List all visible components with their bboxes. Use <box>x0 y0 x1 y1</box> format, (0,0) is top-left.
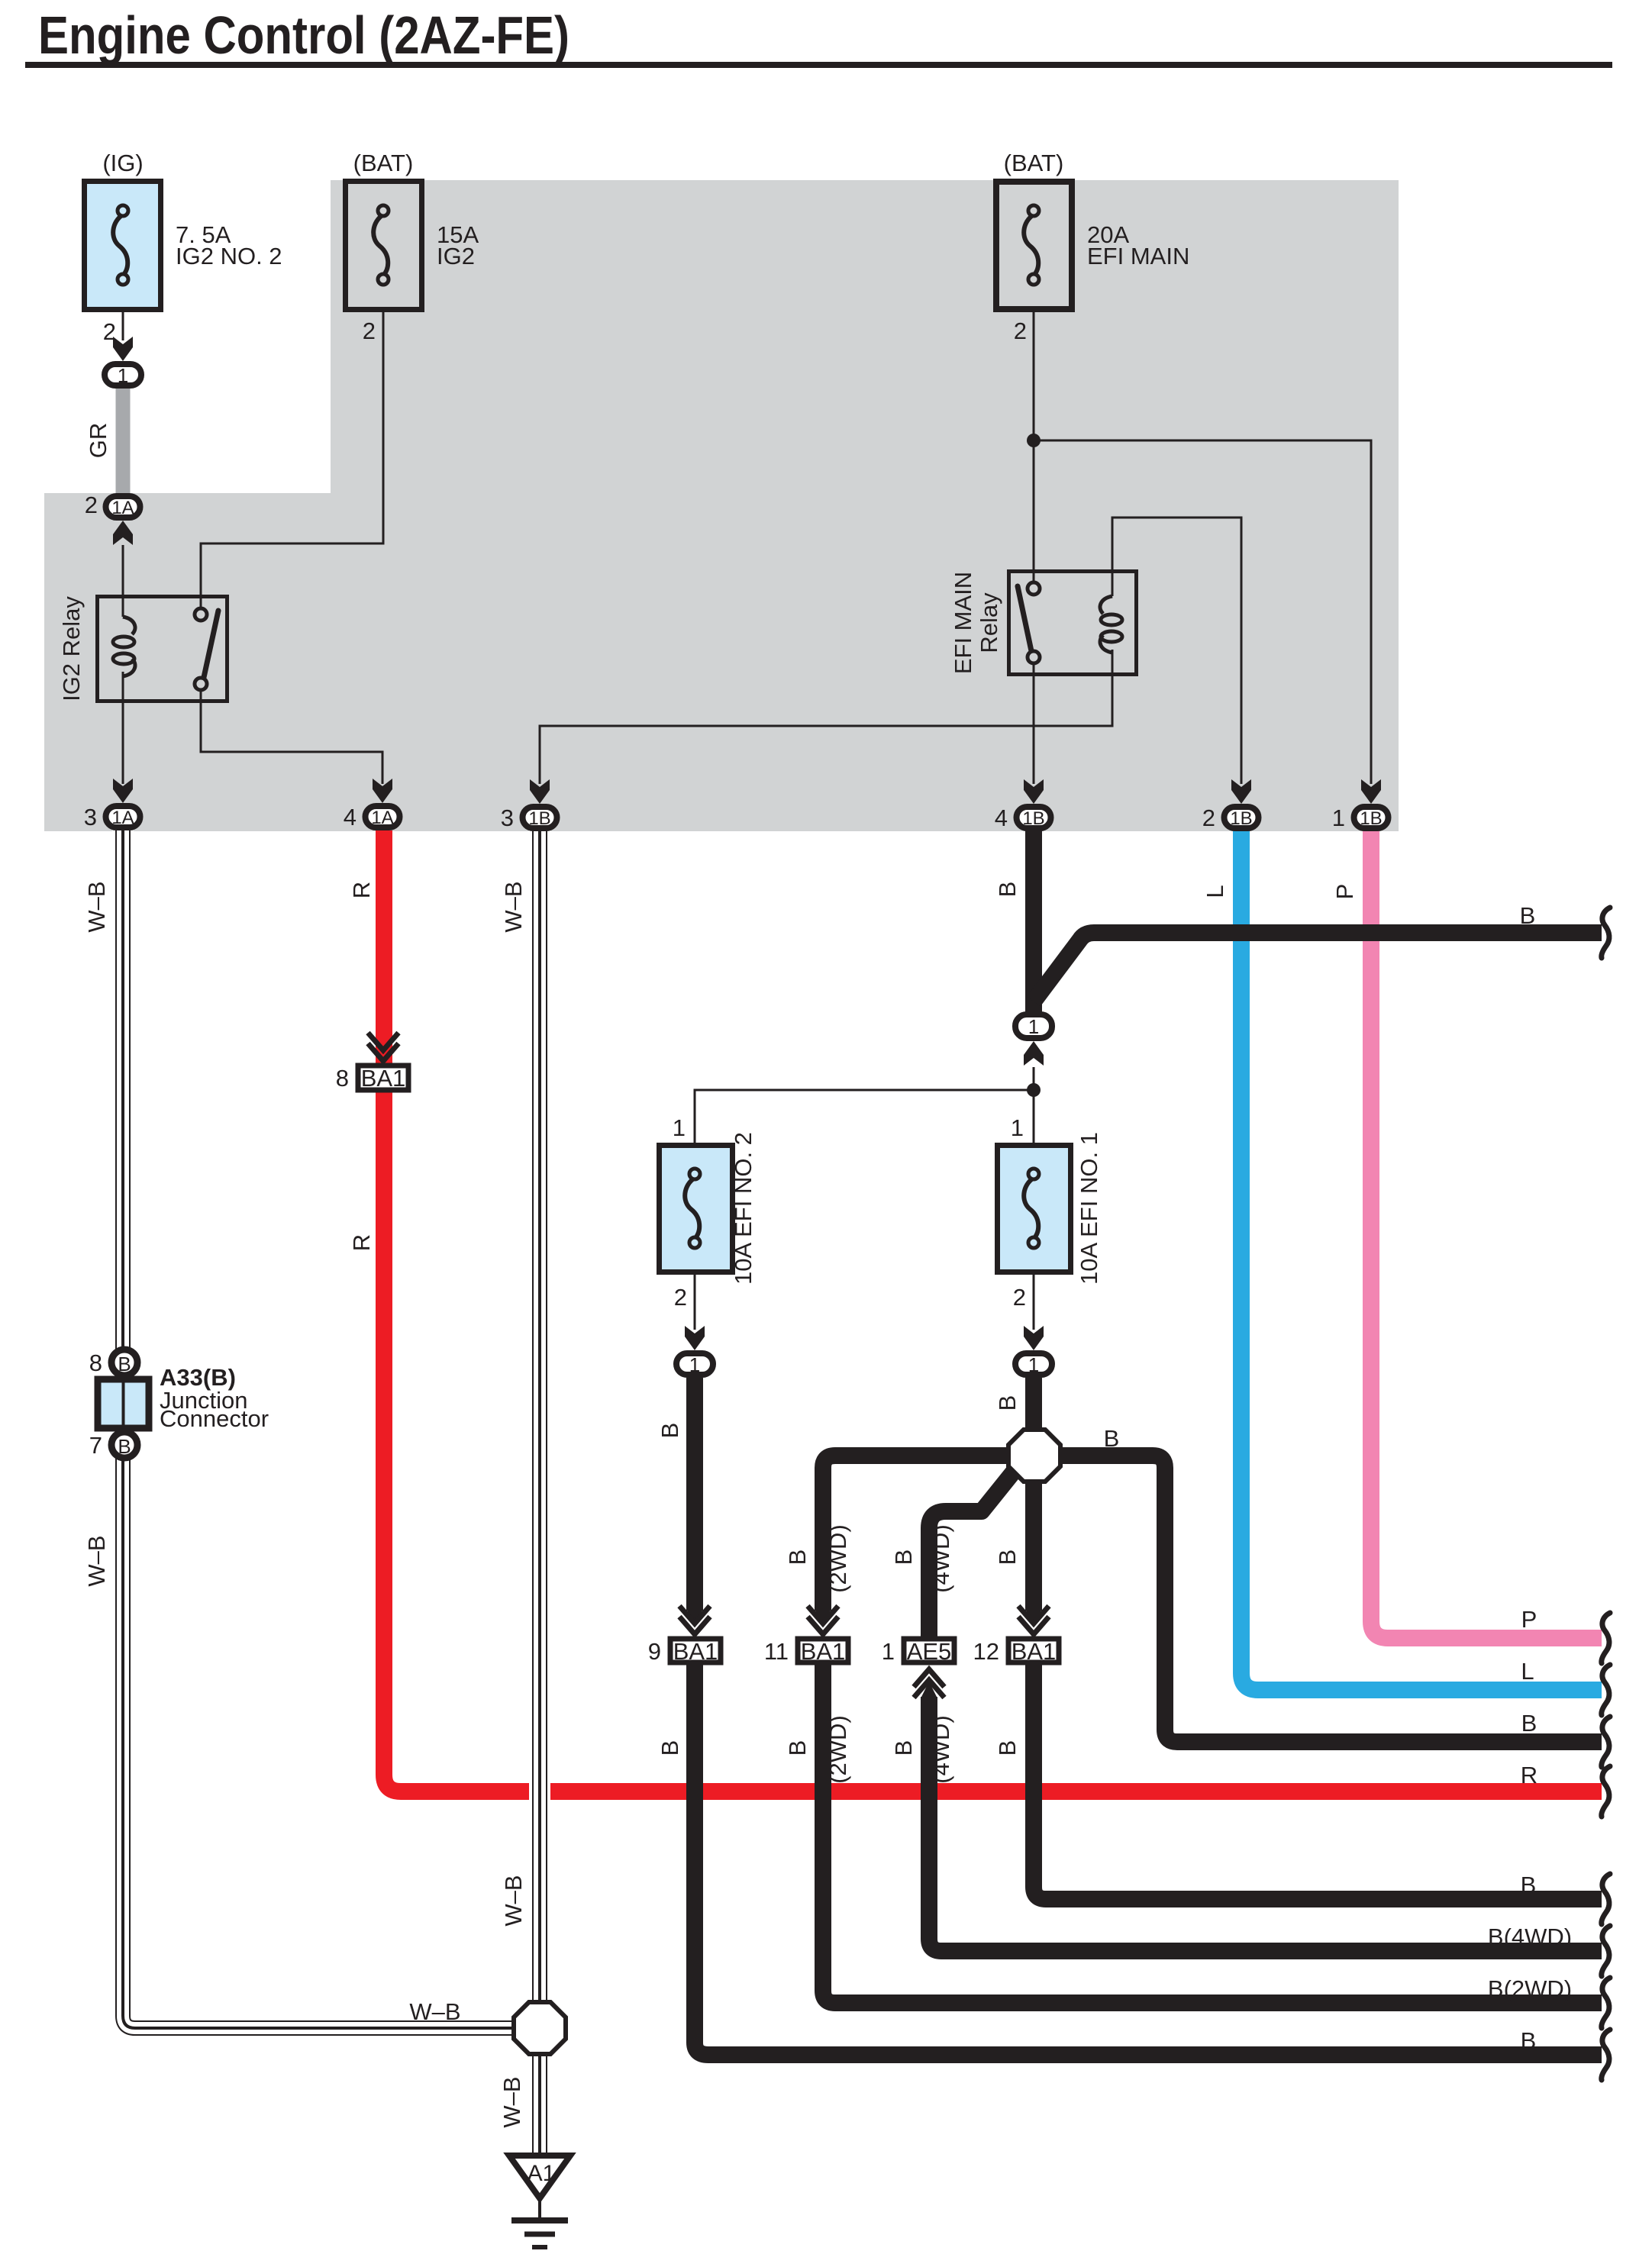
connector 2 (1A) <box>106 496 140 518</box>
pointed wire end at 11 BA1 <box>815 1609 831 1625</box>
wire B from 4(1B) down to node 1 <box>1025 830 1042 1012</box>
svg-text:BA1: BA1 <box>361 1065 406 1092</box>
svg-text:2: 2 <box>103 318 116 345</box>
svg-text:R: R <box>348 882 375 898</box>
arrow into 3(1B) <box>530 779 550 804</box>
wire P pink from 1(1B) to right exit <box>1371 830 1602 1638</box>
arrow into 4(1A) <box>373 779 392 803</box>
wire B(2WD) 11 BA1 to right exit <box>823 1663 1602 2003</box>
svg-text:1: 1 <box>1028 1015 1039 1038</box>
svg-text:B: B <box>784 1740 811 1756</box>
fuse 7.5A IG2 NO.2 (IG) <box>85 182 161 310</box>
double chevron arrow into 9 BA1 <box>679 1606 710 1634</box>
break curl B(2WD) exit <box>1602 1978 1610 2028</box>
svg-text:(2WD): (2WD) <box>824 1715 851 1784</box>
double chevron arrow into 11 BA1 <box>808 1606 838 1634</box>
wire EFI relay coil top to 2(1B) <box>1112 518 1241 784</box>
arrow into node 1 below IG fuse <box>113 337 133 361</box>
svg-text:2: 2 <box>1014 318 1027 344</box>
svg-text:10A EFI NO. 1: 10A EFI NO. 1 <box>1076 1132 1102 1285</box>
wire node to EFI NO.2 fuse <box>695 1090 1034 1143</box>
wire B octagon left branch to 11 BA1 <box>823 1456 1009 1611</box>
break curl R exit <box>1602 1766 1610 1817</box>
svg-text:B: B <box>1521 1872 1537 1898</box>
svg-text:B: B <box>657 1423 683 1439</box>
svg-text:R: R <box>1521 1762 1537 1788</box>
wire 2(1A) to IG2 relay coil <box>122 545 124 617</box>
svg-text:(BAT): (BAT) <box>1004 150 1064 176</box>
svg-text:IG2: IG2 <box>437 243 475 269</box>
wire W-B from A33(B) pin 7 to ground octagon <box>123 1457 514 2028</box>
svg-text:BA1: BA1 <box>1012 1638 1057 1665</box>
connector 1 (1B) <box>1354 807 1389 829</box>
connector node 1 below IG fuse <box>105 364 141 387</box>
wire B diagonal branch to top right exit <box>1034 933 1602 1001</box>
arrow into 4(1B) <box>1024 779 1044 804</box>
svg-text:4: 4 <box>995 805 1008 831</box>
splice 1 AE5 <box>904 1638 954 1665</box>
break curl B top exit <box>1602 908 1610 958</box>
svg-text:R: R <box>348 1234 375 1251</box>
svg-text:3: 3 <box>84 804 97 830</box>
svg-text:1A: 1A <box>111 498 134 518</box>
svg-text:P: P <box>1521 1606 1537 1633</box>
svg-text:EFI MAIN: EFI MAIN <box>1087 243 1189 269</box>
switch of EFI MAIN relay <box>1018 586 1031 651</box>
splice 11 BA1 <box>798 1638 848 1665</box>
svg-text:W–B: W–B <box>500 881 527 932</box>
svg-text:B: B <box>994 1395 1021 1411</box>
arrow into 1(1B) <box>1361 779 1381 804</box>
svg-text:W–B: W–B <box>409 1998 460 2025</box>
wire node 1 to EFI NO.1 fuse <box>1033 1067 1035 1143</box>
coil of EFI MAIN relay <box>1100 596 1112 614</box>
svg-text:IG2 NO. 2: IG2 NO. 2 <box>176 243 282 269</box>
wire EFI relay switch to 4(1B) <box>1033 663 1035 784</box>
svg-text:W–B: W–B <box>499 2076 525 2127</box>
svg-text:1B: 1B <box>1360 808 1382 829</box>
svg-text:B: B <box>118 1353 131 1375</box>
svg-text:BA1: BA1 <box>801 1638 846 1665</box>
junction octagon B <box>1008 1430 1060 1482</box>
wire B 12 BA1 to right exit <box>1034 1663 1602 1899</box>
splice 12 BA1 <box>1008 1638 1059 1665</box>
svg-text:1A: 1A <box>371 808 393 828</box>
svg-text:1: 1 <box>1011 1114 1024 1141</box>
connector node 1 below EFI NO.2 fuse <box>676 1353 713 1376</box>
svg-text:1B: 1B <box>528 808 550 829</box>
double chevron arrow into 12 BA1 <box>1018 1606 1049 1634</box>
junction dot at EFI fuse wire <box>1027 434 1041 447</box>
connector 2 (1B) <box>1224 807 1259 829</box>
switch of IG2 relay <box>203 611 218 681</box>
svg-text:1: 1 <box>882 1638 895 1665</box>
connector node 1 above octagon <box>1015 1014 1052 1038</box>
svg-text:8: 8 <box>336 1065 349 1092</box>
svg-text:W–B: W–B <box>83 1535 110 1586</box>
title underline <box>25 62 1612 68</box>
svg-text:P: P <box>1331 884 1358 900</box>
wire GR from fuse to 2(1A) <box>116 385 131 495</box>
wire junction to 1(1B) <box>1034 440 1371 784</box>
svg-text:B: B <box>994 1549 1021 1566</box>
svg-text:1: 1 <box>118 364 128 387</box>
svg-text:IG2 Relay: IG2 Relay <box>58 596 85 701</box>
arrow into node 1 below EFI NO.2 fuse <box>685 1326 705 1350</box>
splice 9 BA1 <box>670 1638 721 1665</box>
wire R red from 4(1A) to right exit <box>384 830 1602 1791</box>
svg-text:7: 7 <box>89 1432 102 1459</box>
svg-text:2: 2 <box>1202 805 1215 831</box>
svg-text:B(4WD): B(4WD) <box>1488 1924 1572 1950</box>
svg-text:B: B <box>118 1435 131 1458</box>
svg-text:(IG): (IG) <box>102 150 143 176</box>
svg-text:B: B <box>657 1740 683 1756</box>
svg-text:B: B <box>994 882 1021 898</box>
wire B 9 BA1 to bottom right exit <box>695 1663 1602 2055</box>
fuse 15A IG2 <box>346 182 422 310</box>
connector 4 (1B) <box>1017 807 1051 829</box>
wire EFI relay coil bottom to 3(1B) <box>540 650 1112 784</box>
break curl B exit 5th <box>1602 1874 1610 1924</box>
connector 3 (1A) <box>106 806 140 828</box>
svg-text:(BAT): (BAT) <box>353 150 414 176</box>
svg-text:1: 1 <box>689 1353 700 1376</box>
wire IG fuse bottom to arrow <box>122 312 124 340</box>
svg-text:2: 2 <box>1013 1284 1026 1311</box>
svg-text:9: 9 <box>648 1638 661 1665</box>
coil of IG2 relay <box>123 617 135 634</box>
wire EFI NO.2 fuse to connector arrow <box>694 1275 696 1330</box>
wire W-B from 3(1A) to A33(B) pin 8 <box>112 830 134 1350</box>
wire B octagon right branch down <box>1060 1456 1602 1742</box>
break curl B exit 3rd <box>1602 1717 1610 1767</box>
svg-text:3: 3 <box>501 805 514 831</box>
svg-text:AE5: AE5 <box>907 1638 952 1665</box>
svg-text:L: L <box>1521 1658 1534 1685</box>
wire IG2 relay switch to 4(1A) <box>201 689 382 784</box>
svg-text:2: 2 <box>363 318 376 344</box>
arrow up into 2(1A) <box>113 521 133 545</box>
break curl L exit <box>1602 1665 1610 1715</box>
wire IG2 relay coil to 3(1A) arrow <box>122 672 124 784</box>
svg-text:B: B <box>784 1549 811 1566</box>
relay IG2 Relay <box>98 597 227 701</box>
svg-text:BA1: BA1 <box>673 1638 718 1665</box>
svg-text:B: B <box>1521 1710 1537 1737</box>
svg-text:1: 1 <box>1332 805 1345 831</box>
break curl P exit <box>1602 1613 1610 1663</box>
wire W-B from 3(1B) to ground octagon <box>529 830 550 2003</box>
svg-text:GR: GR <box>85 423 111 459</box>
pointed wire end below 1 AE5 <box>921 1682 937 1698</box>
pointed wire end at 9 BA1 <box>686 1609 703 1625</box>
fuse 10A EFI NO.2 <box>660 1146 733 1272</box>
junction connector A33(B) <box>98 1350 149 1458</box>
pointed wire end at 12 BA1 <box>1025 1609 1042 1625</box>
double chevron arrow into 8 BA1 <box>368 1033 398 1061</box>
arrow into 2(1B) <box>1231 779 1251 804</box>
svg-text:12: 12 <box>973 1638 999 1665</box>
splice 8 BA1 <box>358 1065 408 1092</box>
wire B octagon diagonal branch to 1 AE5 <box>929 1469 1016 1638</box>
svg-text:EFI MAIN: EFI MAIN <box>950 572 976 674</box>
svg-text:2: 2 <box>674 1284 687 1311</box>
svg-text:2: 2 <box>85 492 98 518</box>
svg-text:Connector: Connector <box>160 1405 269 1432</box>
svg-text:(4WD): (4WD) <box>928 1524 954 1593</box>
wire L blue from 2(1B) to right exit <box>1241 830 1602 1690</box>
svg-text:B(2WD): B(2WD) <box>1488 1975 1572 2002</box>
svg-text:B: B <box>994 1740 1021 1756</box>
break curl B exit bottom <box>1602 2030 1610 2080</box>
wire 15A IG2 fuse to IG2 relay switch <box>201 312 383 608</box>
svg-text:B: B <box>890 1549 917 1566</box>
svg-text:(2WD): (2WD) <box>824 1524 851 1593</box>
svg-text:4: 4 <box>344 804 357 830</box>
connector 4 (1A) <box>366 806 400 828</box>
svg-text:B: B <box>890 1740 917 1756</box>
wire EFI NO.1 fuse to connector arrow <box>1033 1275 1035 1330</box>
gray shaded region <box>44 180 1399 831</box>
ground A1 <box>509 2156 570 2247</box>
svg-text:W–B: W–B <box>500 1875 527 1926</box>
svg-text:1B: 1B <box>1022 808 1044 829</box>
svg-text:1B: 1B <box>1230 808 1252 829</box>
wire B from node 1 (NO.2) through 9 BA1 to bottom exit <box>686 1378 703 1611</box>
connector node 1 below EFI NO.1 fuse <box>1015 1353 1052 1376</box>
svg-text:Engine Control (2AZ-FE): Engine Control (2AZ-FE) <box>38 5 569 65</box>
wire W-B ground octagon to ground A1 <box>532 2054 547 2154</box>
svg-text:B: B <box>1104 1425 1120 1452</box>
svg-text:(4WD): (4WD) <box>928 1715 954 1784</box>
wire EFI MAIN fuse to EFI relay switch <box>1033 312 1035 583</box>
svg-text:B: B <box>1521 2027 1537 2054</box>
svg-text:A1: A1 <box>528 2161 556 2186</box>
svg-text:B: B <box>1520 902 1536 929</box>
svg-text:1A: 1A <box>111 808 134 828</box>
arrow into 3(1A) <box>113 779 133 803</box>
wire B(4WD) 1 AE5 to right exit <box>929 1697 1602 1951</box>
svg-text:1: 1 <box>673 1114 686 1141</box>
wire B octagon bottom to 12 BA1 <box>1025 1482 1042 1611</box>
arrow into node 1 below EFI NO.1 fuse <box>1024 1326 1044 1350</box>
relay EFI MAIN Relay <box>1009 572 1137 675</box>
svg-text:Relay: Relay <box>976 592 1002 653</box>
junction octagon W-B ground <box>514 2002 566 2054</box>
wire B node 1 (NO.1) to octagon junction <box>1025 1378 1042 1429</box>
svg-text:10A EFI NO. 2: 10A EFI NO. 2 <box>730 1132 757 1285</box>
svg-text:8: 8 <box>89 1350 102 1376</box>
break curl B(4WD) exit <box>1602 1926 1610 1976</box>
connector 3 (1B) <box>523 807 557 829</box>
junction dot below node 1 <box>1027 1083 1041 1097</box>
svg-text:W–B: W–B <box>83 881 110 932</box>
svg-text:L: L <box>1202 885 1228 898</box>
svg-text:1: 1 <box>1028 1353 1039 1376</box>
arrow up into node 1 above octagon <box>1024 1041 1044 1066</box>
double chevron arrow up into 1 AE5 <box>914 1669 944 1698</box>
fuse 10A EFI NO.1 <box>998 1146 1071 1272</box>
svg-text:11: 11 <box>764 1638 789 1665</box>
fuse 20A EFI MAIN <box>996 182 1072 309</box>
